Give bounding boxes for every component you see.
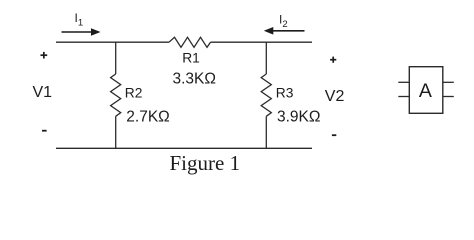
wire top-right segment (211, 41, 313, 43)
resistor R2 (111, 74, 121, 116)
polarity plus V2 (330, 57, 336, 63)
svg-text:V2: V2 (325, 88, 345, 105)
resistor R3 (261, 74, 271, 116)
svg-text:3.9KΩ: 3.9KΩ (277, 109, 320, 126)
wire R3 bottom lead (265, 116, 267, 148)
resistor R1 (169, 37, 211, 47)
svg-text:2.7KΩ: 2.7KΩ (126, 108, 169, 125)
block U1 pin right-top (443, 81, 454, 83)
svg-text:A: A (419, 80, 432, 102)
current arrow I2 (264, 27, 305, 35)
wire bottom segment (56, 147, 312, 149)
polarity minus V1 (42, 130, 47, 132)
wire R3 top lead (265, 42, 267, 74)
svg-text:V1: V1 (33, 84, 53, 101)
svg-text:R1: R1 (182, 51, 200, 66)
svg-text:R3: R3 (276, 85, 294, 100)
wire R2 bottom lead (115, 116, 117, 148)
block U1 pin right-bottom (443, 96, 454, 98)
block U1 body (409, 67, 443, 114)
wire top-left segment (56, 41, 169, 43)
svg-text:I1: I1 (75, 11, 84, 29)
svg-text:Figure 1: Figure 1 (170, 151, 241, 175)
svg-text:3.3KΩ: 3.3KΩ (173, 70, 216, 87)
current arrow I1 (62, 28, 101, 36)
polarity minus V2 (332, 134, 336, 136)
svg-text:R2: R2 (125, 85, 143, 100)
polarity plus V1 (41, 52, 48, 59)
wire R2 top lead (115, 42, 117, 74)
svg-text:I2: I2 (279, 13, 288, 31)
block U1 pin left-top (398, 81, 409, 83)
block U1 pin left-bottom (398, 96, 409, 98)
